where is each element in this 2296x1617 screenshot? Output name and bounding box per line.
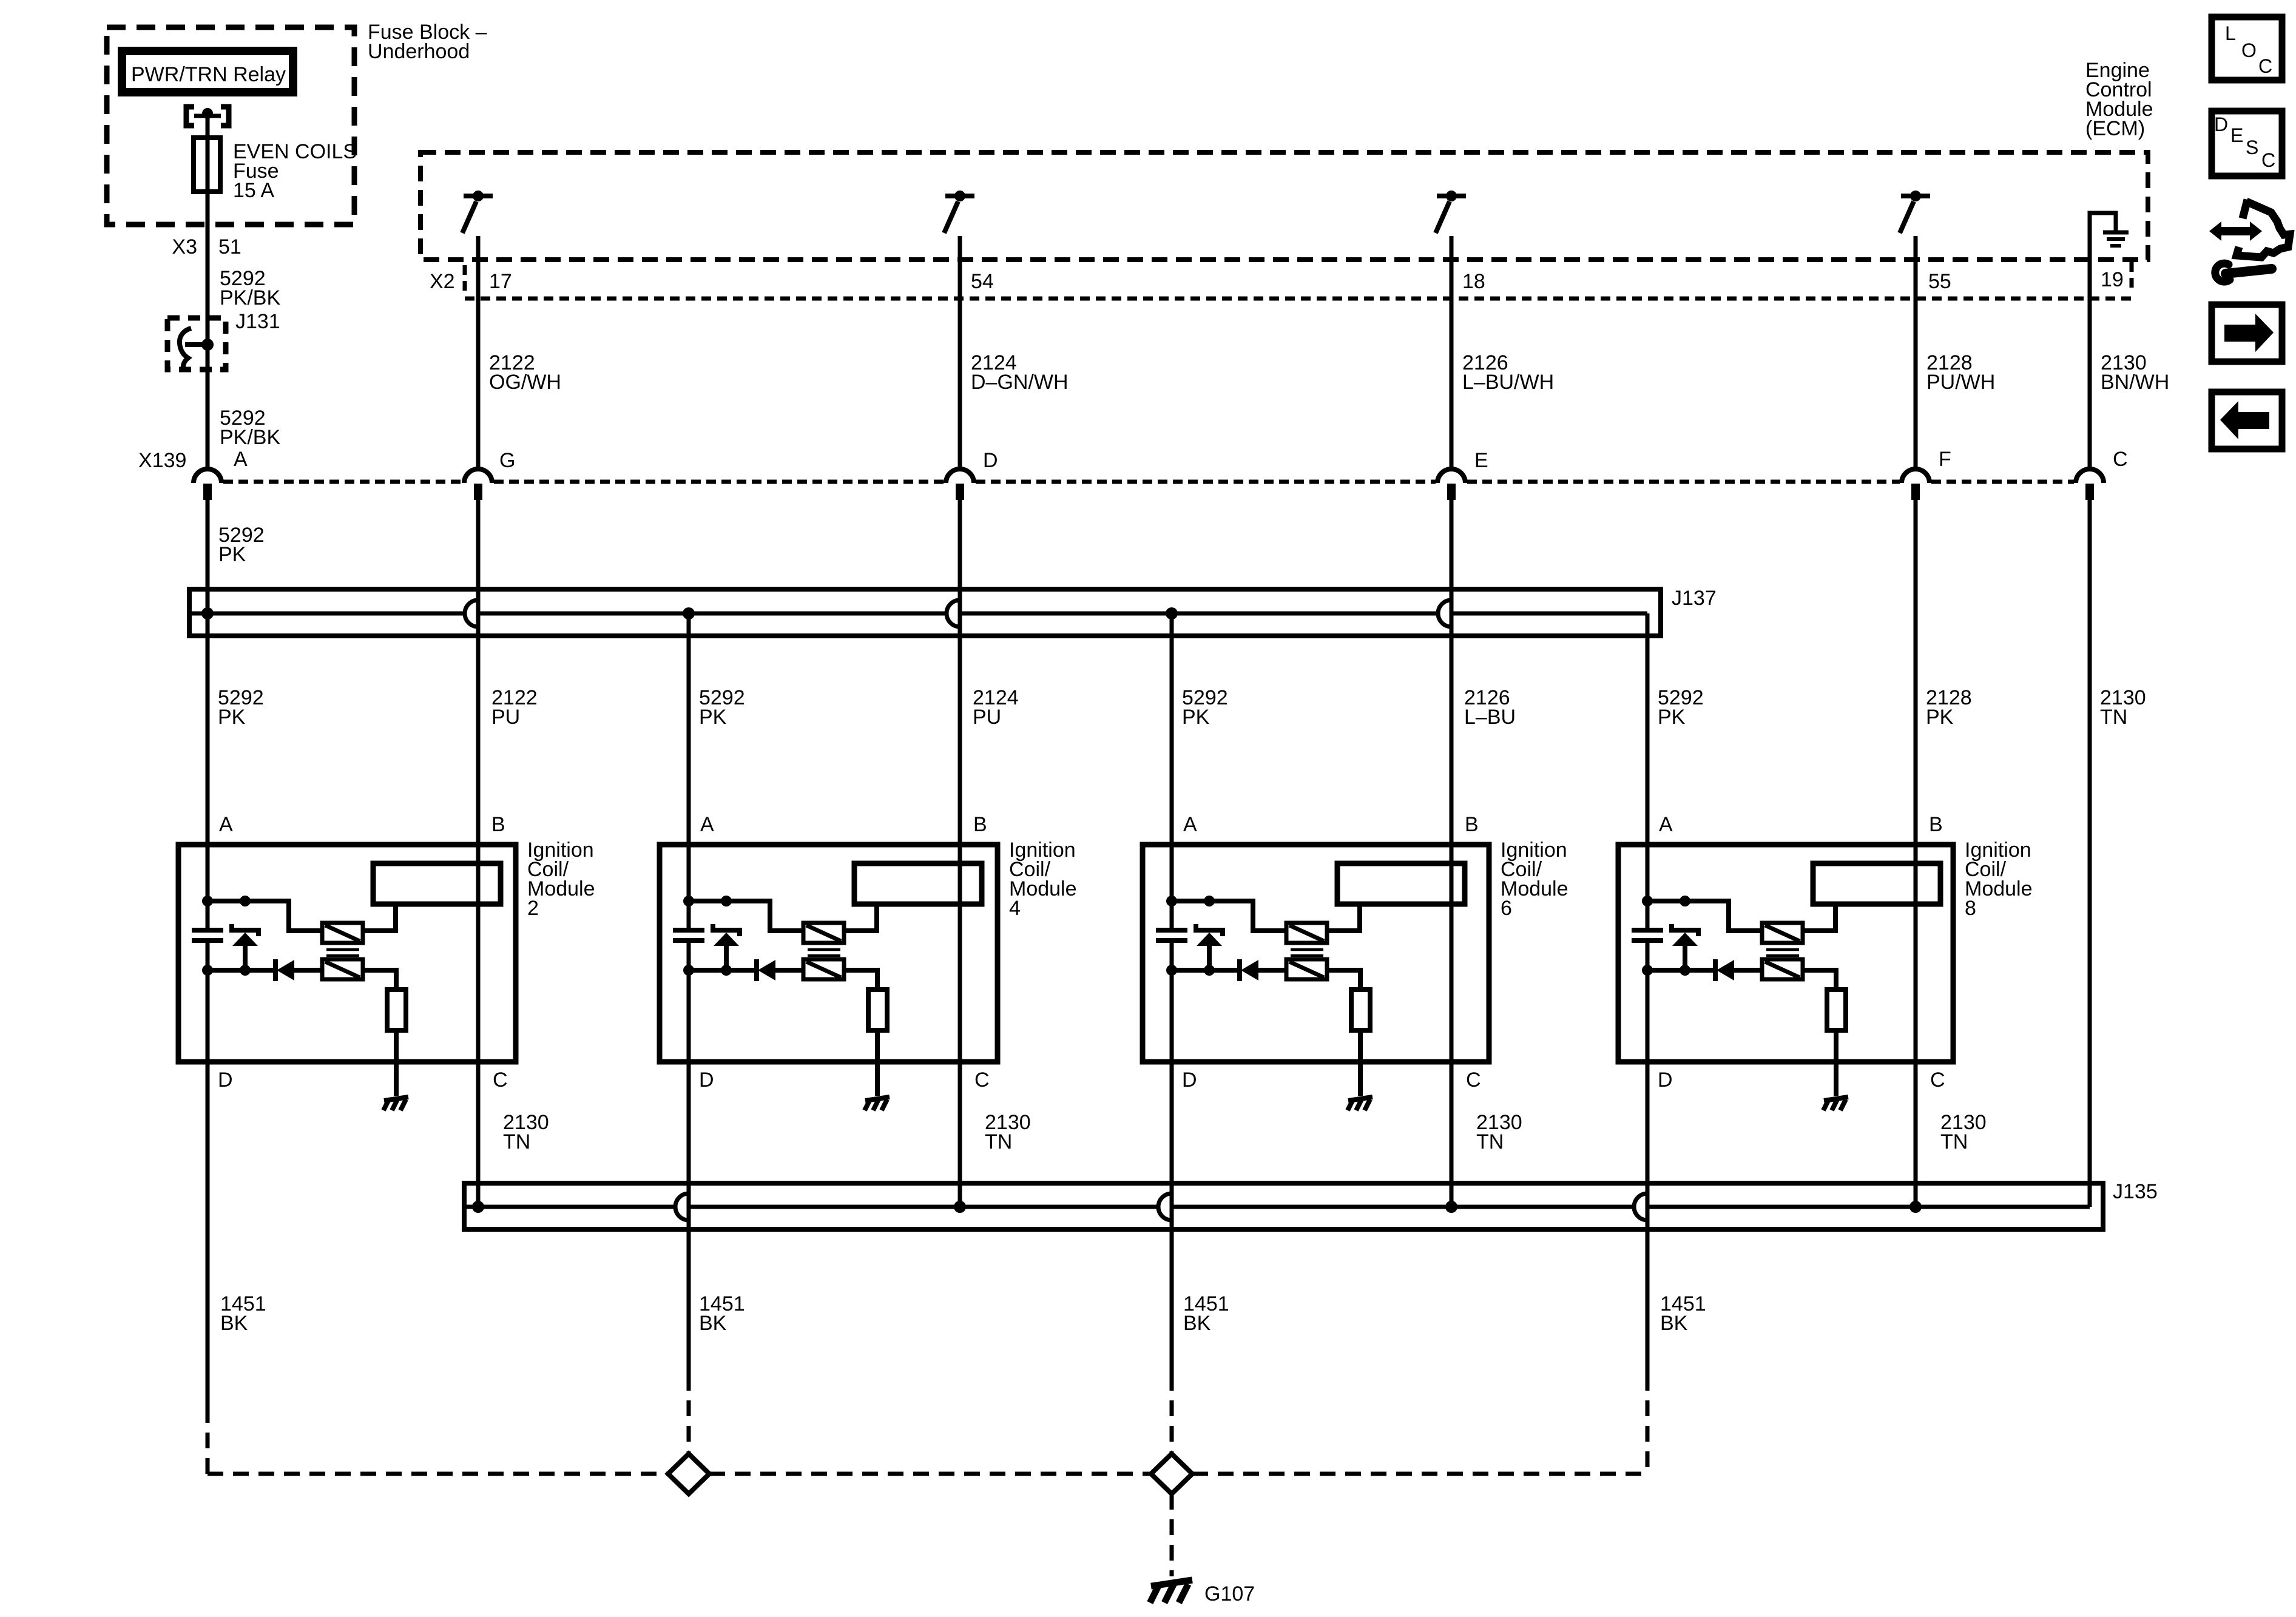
ignition coil/module 6 box [1143,845,1489,1062]
module 6 primary coil [1286,923,1327,943]
J137 bus wire [189,612,465,616]
svg-text:PK/BK: PK/BK [220,426,280,449]
svg-text:O: O [2241,39,2257,61]
wire 2122 OG/WH [476,237,481,468]
wire 2124 D-GN/WH [958,237,962,468]
module 8 capacitor [1632,928,1663,933]
svg-text:C: C [2258,55,2272,77]
svg-text:PK/BK: PK/BK [220,286,280,309]
svg-text:G: G [499,449,515,472]
svg-text:C: C [2261,149,2275,171]
svg-text:A: A [700,813,714,836]
J135 node C2 [472,1201,484,1213]
J137 tap node module4 [683,607,695,619]
module 8 internal node upper [1647,899,1685,903]
svg-text:A: A [1183,813,1197,836]
module 6 zener diode [1196,924,1223,936]
svg-text:BK: BK [220,1312,248,1335]
svg-text:S: S [2246,137,2258,158]
svg-text:C: C [2113,448,2128,471]
J135 node C6 [1445,1201,1457,1213]
svg-text:17: 17 [489,270,512,293]
wire 2128 PK upper [1914,500,1918,1207]
svg-text:D: D [218,1068,233,1092]
svg-text:X2: X2 [430,270,455,293]
ignition coil/module 2 box [178,845,516,1062]
J135 node C8 [1909,1201,1922,1213]
module 2 zener diode [232,924,258,936]
svg-text:C: C [1930,1068,1945,1092]
icon DESC box [2212,111,2282,176]
svg-text:PK: PK [1926,706,1954,729]
X139 dotted line [223,480,462,484]
svg-text:18: 18 [1462,270,1485,293]
svg-text:19: 19 [2101,268,2124,291]
wire 5292 PK to module6 [1170,613,1174,930]
svg-text:BK: BK [1660,1312,1688,1335]
ECM driver switch pin 54 [945,194,974,198]
ECM dashed box [420,152,2148,260]
svg-text:B: B [491,813,505,836]
splice diamond 2 [1151,1454,1192,1494]
svg-text:L: L [2225,22,2236,44]
J135 node C4 [954,1201,966,1213]
module 4 ground [875,1030,880,1096]
X139 pin D [946,469,974,483]
module 2 secondary coil [322,959,363,979]
svg-text:A: A [1659,813,1673,836]
module 8 wire primary to driver [1803,904,1835,931]
wire 2122 PU upper [476,500,481,1207]
module 4 wire to primary coil [726,901,803,931]
module 8 driver block [1813,863,1940,904]
module 2 primary coil [322,923,363,943]
X139 pin C [2076,469,2104,483]
svg-text:Underhood: Underhood [368,40,470,63]
svg-text:B: B [1929,813,1943,836]
icon LOC box [2212,17,2282,80]
svg-text:E: E [2230,124,2243,146]
wire 1451 BK module6 [1170,940,1174,1375]
module 8 internal node lower [1647,968,1685,973]
svg-text:TN: TN [2100,706,2127,729]
svg-text:A: A [219,813,233,836]
wire 2126 L-BU upper [1450,500,1454,1207]
svg-text:PK: PK [218,706,246,729]
module 4 resistor [844,970,877,990]
module 8 zener diode [1672,924,1698,936]
module 2 core [326,948,359,951]
svg-text:8: 8 [1965,897,1976,920]
module 6 diode [1237,959,1242,981]
svg-text:PK: PK [218,543,246,566]
X139 pin G [464,469,492,483]
module 6 wire to primary coil [1209,901,1286,931]
svg-text:OG/WH: OG/WH [489,371,561,394]
svg-text:L–BU/WH: L–BU/WH [1462,371,1554,394]
X139 pin A [194,469,221,483]
wire 5292 PK [206,500,210,930]
svg-text:D: D [983,449,998,472]
svg-text:15 A: 15 A [233,179,274,202]
svg-text:PK: PK [699,706,727,729]
svg-text:C: C [493,1068,508,1092]
J137 tap node A [201,607,214,619]
module 4 driver block [854,863,982,904]
module 6 ground [1358,1030,1363,1096]
svg-text:2: 2 [527,897,539,920]
fuse EVEN COILS 15A [194,138,220,192]
icon arrow right box [2212,305,2282,362]
svg-text:F: F [1939,448,1951,471]
module 2 capacitor [192,928,223,933]
module 2 wire primary to driver [363,904,396,931]
module 6 internal node lower [1172,968,1209,973]
wire 5292 from relay through fuse [206,116,210,468]
module 8 secondary coil [1762,959,1803,979]
module 6 internal node upper [1172,899,1209,903]
module 6 capacitor [1156,928,1187,933]
svg-text:B: B [973,813,987,836]
svg-text:D: D [2214,113,2228,135]
svg-text:X3: X3 [172,235,197,258]
svg-text:PU/WH: PU/WH [1926,371,1995,394]
module 8 wire to primary coil [1685,901,1762,931]
svg-text:55: 55 [1928,270,1951,293]
module 6 wire primary to driver [1327,904,1360,931]
relay pin bracket [186,107,194,126]
module 2 resistor [363,970,396,990]
module 2 internal node upper [208,899,245,903]
module 4 diode [754,959,759,981]
svg-text:C: C [1466,1068,1481,1092]
svg-text:PU: PU [491,706,520,729]
wire 2130 TN right [2088,500,2092,1207]
ECM internal ground pin 19 [2088,213,2092,260]
ignition coil/module 4 box [660,845,998,1062]
module 4 internal node lower [689,968,726,973]
wire 1451 BK module4 [687,940,691,1375]
svg-text:4: 4 [1009,897,1021,920]
svg-text:L–BU: L–BU [1464,706,1516,729]
svg-text:B: B [1465,813,1479,836]
module 4 zener diode [713,924,740,936]
svg-text:BN/WH: BN/WH [2101,371,2169,394]
ECM driver switch pin 17 [464,194,493,198]
wire 5292 PK to module8 [1646,613,1650,930]
svg-text:D: D [1182,1068,1197,1092]
module 6 secondary coil [1286,959,1327,979]
svg-text:J135: J135 [2113,1180,2158,1203]
wire 1451 BK module2 [206,940,210,1407]
svg-text:51: 51 [218,235,241,258]
ECM driver switch pin 18 [1437,194,1466,198]
module 2 ground [394,1030,399,1096]
wire 1451 BK module8 [1646,940,1650,1375]
svg-text:PK: PK [1182,706,1210,729]
svg-text:TN: TN [503,1130,530,1153]
splice pack J137 box [189,589,1661,636]
icon vehicle with arrow and wrench [2237,200,2290,257]
svg-text:J131: J131 [235,310,280,333]
svg-text:TN: TN [1940,1130,1968,1153]
module 2 diode [273,959,278,981]
svg-text:TN: TN [1476,1130,1504,1153]
wire to G107 [1170,1494,1174,1576]
X139 pin F [1902,469,1930,483]
ignition coil/module 8 box [1618,845,1953,1062]
splice diamond 1 [668,1454,709,1494]
svg-text:X139: X139 [138,449,186,472]
svg-text:TN: TN [985,1130,1012,1153]
relay PWR/TRN [122,51,293,92]
svg-text:PK: PK [1658,706,1686,729]
svg-text:C: C [974,1068,990,1092]
wire 2124 PU upper [958,500,962,1207]
module 2 internal node lower [208,968,245,973]
fuse block underhood box [107,27,354,224]
module 4 capacitor [673,928,704,933]
module 6 resistor [1327,970,1360,990]
svg-text:BK: BK [699,1312,727,1335]
module 4 secondary coil [803,959,844,979]
splice pack J135 box [464,1183,2103,1229]
module 8 resistor [1803,970,1836,990]
svg-text:BK: BK [1183,1312,1211,1335]
svg-text:6: 6 [1501,897,1512,920]
ECM driver switch pin 55 [1901,194,1930,198]
ground G107 [1151,1580,1192,1586]
svg-text:G107: G107 [1204,1582,1255,1605]
module 4 core [808,948,840,951]
splice J131 [167,318,226,370]
module 8 primary coil [1762,923,1803,943]
wire 2126 L-BU/WH [1450,237,1454,468]
svg-text:D–GN/WH: D–GN/WH [971,371,1069,394]
module 2 wire to primary coil [245,901,322,931]
svg-text:D: D [1658,1068,1673,1092]
connector X2 line [465,297,2131,301]
svg-text:E: E [1474,449,1488,472]
svg-text:A: A [234,448,248,471]
svg-text:54: 54 [971,270,994,293]
J137 tap node module6 [1166,607,1178,619]
svg-text:J137: J137 [1672,587,1717,610]
module 4 primary coil [803,923,844,943]
wire 2130 BN/WH [2088,260,2092,468]
module 2 driver block [373,863,501,904]
svg-text:PWR/TRN Relay: PWR/TRN Relay [131,63,286,86]
module 8 diode [1713,959,1718,981]
ground bus dashed [208,1472,668,1476]
module 6 driver block [1337,863,1465,904]
module 4 internal node upper [689,899,726,903]
svg-text:D: D [699,1068,714,1092]
module 4 wire primary to driver [844,904,877,931]
svg-text:(ECM): (ECM) [2085,117,2145,140]
J135 bus wire [464,1205,675,1209]
svg-text:PU: PU [973,706,1001,729]
icon arrow left box [2212,392,2282,449]
connector X2 ticks [463,265,467,291]
module 8 ground [1834,1030,1838,1096]
wire 5292 PK to module4 [687,613,691,930]
module 8 core [1766,948,1799,951]
wire 2128 PU/WH [1914,237,1918,468]
module 6 core [1291,948,1323,951]
X139 pin E [1437,469,1465,483]
